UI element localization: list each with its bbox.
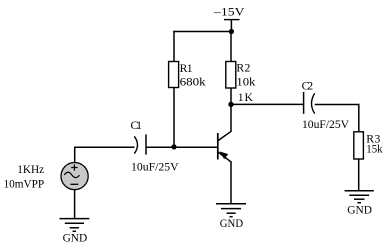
svg-text:R1: R1 [180, 62, 193, 75]
node base junction [171, 144, 176, 149]
svg-text:C1: C1 [131, 119, 143, 132]
svg-text:GND: GND [220, 217, 243, 230]
wire corner down to R3 [358, 104, 360, 132]
resistor R3 [354, 132, 364, 159]
wire source bottom [74, 189, 76, 218]
source plus sign [71, 164, 77, 170]
wire source top [74, 147, 76, 163]
wire C2 to R3 corner [315, 104, 359, 106]
source V1 circle [61, 163, 88, 190]
source sine wave [64, 172, 79, 177]
wire collector node to C2 [231, 103, 304, 105]
transistor Q1 emitter diagonal [218, 152, 231, 162]
wire rail to R2 top [230, 32, 232, 62]
svg-text:10uF/25V: 10uF/25V [131, 161, 179, 174]
svg-text:1K: 1K [238, 91, 254, 104]
node collector junction [228, 102, 233, 107]
source minus sign [71, 183, 79, 185]
ground (source) [60, 219, 90, 232]
wire C1 to base [146, 146, 218, 148]
svg-text:680k: 680k [180, 76, 206, 89]
svg-text:R2: R2 [236, 62, 250, 75]
wire emitter down [230, 161, 232, 203]
svg-text:10k: 10k [236, 75, 255, 88]
resistor R2 [226, 62, 236, 89]
svg-text:C2: C2 [302, 80, 314, 93]
capacitor C1 straight plate [145, 134, 147, 154]
power bar [224, 19, 240, 21]
svg-text:GND: GND [347, 204, 372, 217]
wire R1 bottom to base wire [173, 88, 175, 148]
ground (emitter) [216, 204, 246, 217]
wire R3 bottom [358, 159, 360, 191]
node power junction [229, 29, 234, 34]
wire R2 bottom to collector [230, 88, 232, 132]
transistor Q1 emitter arrow [220, 151, 229, 159]
transistor Q1 collector diagonal [218, 131, 231, 140]
svg-text:15k: 15k [366, 143, 382, 156]
resistor R1 [169, 62, 179, 88]
capacitor C2 curved plate [312, 93, 315, 113]
wire source to C1 [74, 146, 135, 148]
ground (R3) [345, 191, 374, 203]
wire top rail horizontal [173, 31, 231, 33]
svg-text:GND: GND [63, 232, 88, 245]
svg-text:10mVPP: 10mVPP [4, 177, 45, 190]
capacitor C1 curved plate [134, 136, 137, 153]
capacitor C2 straight plate [303, 92, 305, 114]
wire rail to R1 top [173, 31, 175, 62]
transistor Q1 base bar [217, 133, 219, 160]
svg-text:1KHz: 1KHz [17, 163, 44, 176]
svg-text:10uF/25V: 10uF/25V [302, 118, 350, 131]
wire power bar to rail [230, 20, 232, 32]
svg-text:–15V: –15V [213, 4, 245, 18]
